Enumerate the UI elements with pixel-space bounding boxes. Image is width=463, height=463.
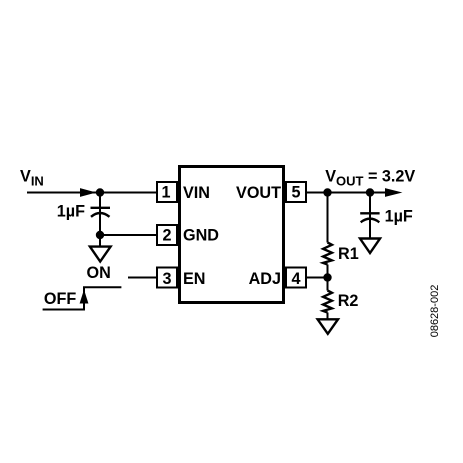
svg-text:1µF: 1µF: [57, 202, 85, 220]
svg-text:1µF: 1µF: [385, 208, 413, 226]
svg-text:2: 2: [162, 227, 171, 245]
svg-text:EN: EN: [183, 270, 206, 288]
svg-text:5: 5: [291, 184, 300, 202]
svg-text:R1: R1: [338, 245, 359, 263]
svg-text:VOUT: VOUT: [236, 184, 281, 202]
svg-text:VIN: VIN: [183, 184, 210, 202]
svg-text:4: 4: [291, 270, 300, 288]
svg-text:ON: ON: [87, 264, 111, 282]
svg-text:1: 1: [161, 184, 170, 202]
svg-text:ADJ: ADJ: [249, 270, 281, 288]
svg-text:OFF: OFF: [44, 290, 76, 308]
svg-text:R2: R2: [338, 292, 359, 310]
svg-text:08628-002: 08628-002: [429, 285, 441, 338]
svg-text:GND: GND: [183, 227, 219, 245]
svg-text:3: 3: [162, 270, 171, 288]
